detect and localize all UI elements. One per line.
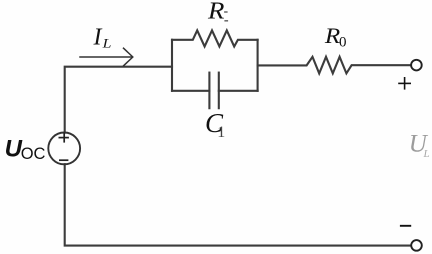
svg-text:1: 1 <box>217 124 225 141</box>
svg-text:I: I <box>93 25 103 51</box>
svg-text:0: 0 <box>339 35 347 51</box>
svg-text:L: L <box>102 37 112 51</box>
svg-text:OC: OC <box>21 145 46 163</box>
svg-text:L: L <box>423 148 430 160</box>
svg-text:R: R <box>207 0 225 24</box>
